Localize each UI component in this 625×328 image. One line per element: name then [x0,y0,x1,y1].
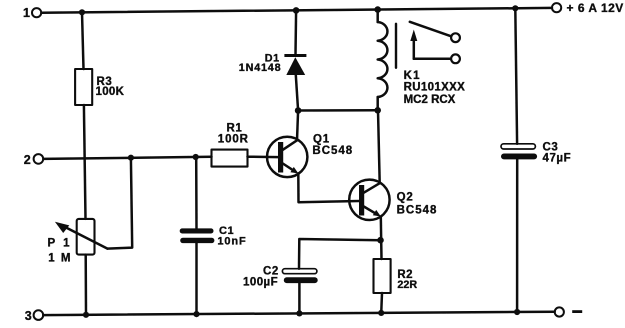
wire input rail [43,157,211,159]
wire R2 bottom lead [380,293,383,311]
svg-text:47µF: 47µF [543,153,572,165]
node wiper tap [128,155,134,161]
svg-text:100µF: 100µF [243,276,278,288]
wire R3 top lead [82,12,84,69]
svg-text:BC548: BC548 [397,204,438,216]
wire D1 to K1 [298,109,378,112]
wire C1 top lead [195,157,198,228]
svg-text:Q1: Q1 [313,134,330,146]
resistor R3 [75,69,124,105]
svg-text:1N4148: 1N4148 [239,62,282,74]
wire C3 top lead [515,8,517,144]
resistor R2 [374,259,418,293]
node top rail / K1 [374,6,381,13]
wire ground rail [43,312,555,315]
terminal minus [555,307,583,316]
wire P1 bottom lead [84,255,87,315]
svg-text:1M: 1M [48,252,76,264]
terminal 1 [23,6,41,20]
wire R3 to P1 [84,105,86,219]
svg-text:Q2: Q2 [397,192,414,204]
svg-text:3: 3 [25,309,32,323]
node K1 / Q2 collector [374,107,381,114]
wire R1 to Q1 base [248,155,279,158]
svg-text:100K: 100K [96,86,125,98]
node ground / C2 [296,310,302,316]
svg-text:RU101XXX: RU101XXX [404,81,466,93]
node C1 tap [193,154,199,160]
diode D1 [239,10,307,110]
relay K1 [378,10,466,111]
wire C2 bottom lead [298,283,301,312]
wire C2 link [299,239,381,269]
wire wiper branch [107,158,132,249]
terminal 2 [24,153,43,167]
svg-text:100R: 100R [218,133,249,145]
capacitor C2 [243,266,318,289]
node D1 / K1 / Q1 [295,107,302,114]
terminal +6 A 12V [552,1,624,15]
resistor R1 [212,123,249,167]
svg-text:+ 6 A 12V: + 6 A 12V [567,1,624,15]
transistor Q2 [349,180,437,220]
node ground / R2 [378,310,384,316]
svg-text:2: 2 [24,153,31,167]
wire K1 to Q2 collector [378,111,380,184]
potentiometer P1 [48,219,108,265]
terminal 3 [25,309,43,323]
wire C3 bottom lead [516,159,519,312]
svg-text:10nF: 10nF [217,235,246,247]
node top rail / R3 [79,9,85,15]
wire Q1 collector [297,111,298,141]
svg-text:P1: P1 [48,238,78,250]
wire Q2 emitter to R2 [380,216,383,259]
wire top rail [41,8,552,13]
node top rail / C3 [512,5,518,11]
transistor Q1 [267,134,353,178]
wire C1 bottom lead [195,243,198,314]
node ground / C3 [514,309,520,315]
node ground / C1 [193,311,199,317]
node top rail / D1 [293,7,300,14]
capacitor C1 [180,225,247,247]
capacitor C3 [501,142,571,165]
svg-text:BC548: BC548 [312,145,353,157]
node ground / P1 [83,312,89,318]
wire Q1 emitter to Q2 base [298,173,359,202]
svg-text:K1: K1 [404,70,421,82]
node Q2 emitter / C2 [377,237,384,244]
svg-text:1: 1 [23,6,30,20]
svg-text:22R: 22R [397,279,417,291]
svg-text:MC2 RCX: MC2 RCX [404,94,456,106]
